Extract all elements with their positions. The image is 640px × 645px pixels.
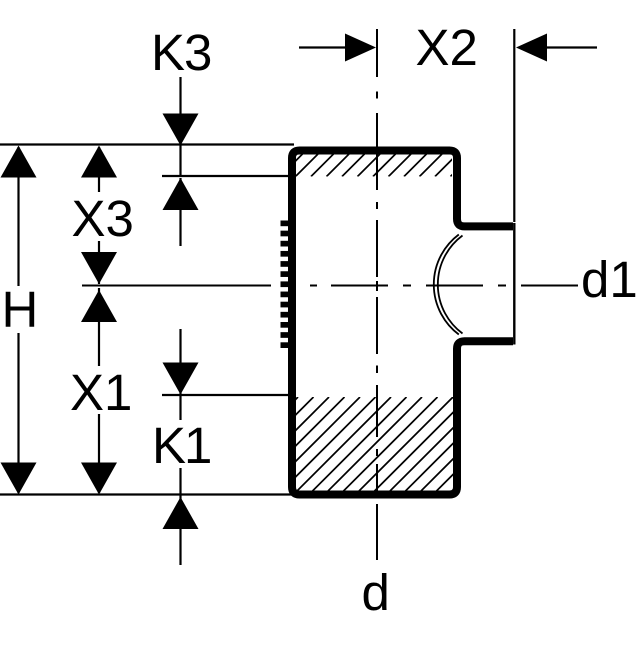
svg-text:K: K: [151, 24, 185, 81]
svg-text:X3: X3: [72, 190, 134, 247]
svg-text:d1: d1: [581, 251, 638, 308]
svg-text:d: d: [362, 564, 390, 621]
svg-text:X2: X2: [416, 19, 478, 76]
svg-text:1: 1: [184, 417, 212, 474]
svg-text:H: H: [2, 281, 39, 338]
svg-text:3: 3: [184, 24, 212, 81]
svg-text:K: K: [152, 417, 186, 474]
svg-text:X1: X1: [70, 364, 132, 421]
